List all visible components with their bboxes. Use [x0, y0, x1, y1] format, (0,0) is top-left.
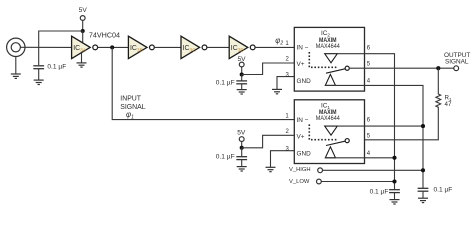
op-amp U-IC2 analog switch MAX4644 box	[294, 27, 364, 91]
capacitor 0.1uF (V_HIGH)	[418, 188, 429, 191]
svg-text:0.1 µF: 0.1 µF	[370, 189, 389, 196]
wire IC3A out to IC3B	[98, 46, 129, 48]
IC2 internal: NO buffer triangle (down)	[325, 54, 338, 63]
IC1 internal: NC buffer triangle (up)	[325, 147, 335, 158]
svg-text:IN −: IN −	[297, 117, 309, 124]
wire IC3D out to IC2 pin1 / node phi2	[255, 46, 294, 48]
svg-text:0.1 µF: 0.1 µF	[216, 79, 235, 86]
wire J1 to ground	[15, 57, 17, 74]
terminal OUTPUT SIGNAL	[454, 66, 459, 71]
svg-text:0.1 µF: 0.1 µF	[216, 153, 235, 160]
wire IC3C out to IC3D	[207, 46, 229, 48]
wire 5V terminal down to node	[82, 20, 84, 31]
svg-text:1: 1	[285, 113, 289, 119]
svg-text:0.1 µF: 0.1 µF	[434, 186, 453, 193]
ground (IC1 GND pin)	[266, 167, 276, 171]
svg-text:GND: GND	[297, 78, 312, 85]
node IC1 pin4 / V_LOW rail	[392, 156, 396, 160]
svg-text:1: 1	[285, 41, 289, 47]
node output	[436, 66, 440, 70]
ground (left bypass cap)	[34, 80, 44, 84]
IC1 internal: dashed control line	[309, 124, 337, 139]
inverter IC3D	[229, 36, 255, 58]
inverter IC3C	[181, 36, 207, 58]
node phi1 (input signal tap)	[110, 45, 114, 49]
wire IC3B out to IC3C	[154, 46, 181, 48]
wire V_HIGH to rail	[323, 169, 424, 171]
ground (IC3A)	[77, 63, 87, 67]
connector J1 input jack	[7, 38, 25, 56]
inverter IC3A	[72, 36, 98, 58]
svg-text:SIGNAL: SIGNAL	[445, 58, 469, 65]
wire IC2 pin5 to output node	[349, 67, 454, 69]
svg-text:GND: GND	[297, 151, 312, 158]
svg-text:3: 3	[286, 146, 290, 152]
svg-text:IN −: IN −	[297, 45, 309, 52]
resistor R1	[365, 68, 441, 140]
wire 5V to node (IC2 V+)	[241, 67, 243, 75]
wire IC2 pin4 to V_HIGH rail	[365, 85, 424, 188]
ground (IC1 bypass cap)	[237, 167, 247, 171]
wire node to IC2 pin2	[242, 63, 295, 75]
wire IC1 pin4 to V_LOW rail	[365, 157, 395, 159]
svg-text:47: 47	[445, 101, 452, 108]
node IC2 V+ junction	[240, 72, 244, 76]
svg-text:φ2: φ2	[275, 36, 283, 46]
ground (below J1)	[11, 74, 21, 78]
IC1 internal: common pole circle	[345, 139, 349, 143]
svg-text:INPUT: INPUT	[120, 95, 141, 102]
IC2 internal: NC buffer triangle (up)	[325, 74, 335, 85]
wire node to IC1 pin2	[242, 135, 295, 148]
svg-text:2: 2	[286, 57, 290, 63]
IC1 internal: NO buffer triangle (down)	[325, 126, 338, 135]
svg-text:0.1 µF: 0.1 µF	[47, 64, 66, 71]
wire node phi1 down and right to IC1 pin1	[112, 47, 294, 119]
svg-text:74VHC04: 74VHC04	[89, 31, 120, 40]
node 5V rail junction	[81, 29, 85, 33]
svg-text:5: 5	[367, 61, 371, 67]
svg-text:MAX4644: MAX4644	[316, 115, 340, 122]
IC2 internal: pin4 lead	[325, 84, 364, 86]
svg-text:3: 3	[286, 72, 290, 78]
svg-text:6: 6	[367, 118, 371, 124]
ground (IC2 GND pin)	[272, 89, 282, 93]
svg-text:MAX4644: MAX4644	[316, 43, 340, 50]
inverter IC3B	[128, 36, 154, 58]
IC2 internal: dashed control line	[309, 52, 337, 67]
wire J1 to IC3A input	[21, 46, 72, 48]
wire IC1 pin6 to V_HIGH rail	[365, 125, 424, 127]
wire IC1 pin3 to ground	[271, 151, 295, 167]
IC2 internal: common pole circle	[345, 66, 349, 70]
svg-text:5V: 5V	[79, 7, 88, 14]
svg-text:V_LOW: V_LOW	[289, 179, 310, 185]
capacitor 0.1uF (IC2 bypass)	[241, 75, 243, 81]
IC1 internal: pin4 lead	[325, 157, 364, 159]
ground (V_LOW cap)	[390, 200, 400, 204]
node IC1 pin6 / V_HIGH rail	[421, 124, 425, 128]
wire IC2 pin3 to ground	[277, 77, 294, 90]
svg-text:4: 4	[367, 78, 371, 84]
wire 5V to node (IC1 V+)	[241, 142, 243, 148]
IC2 internal: pin6 lead	[337, 53, 364, 55]
svg-text:φ1: φ1	[126, 110, 134, 120]
svg-text:4: 4	[367, 151, 371, 157]
svg-text:V_HIGH: V_HIGH	[289, 167, 311, 173]
svg-text:V+: V+	[297, 133, 305, 140]
node V_LOW rail	[392, 179, 396, 183]
svg-text:6: 6	[367, 45, 371, 51]
node V_HIGH rail	[421, 168, 425, 172]
ground (V_HIGH cap)	[418, 198, 428, 202]
IC1 internal: pin6 lead	[337, 125, 364, 127]
wire IC2 pin6 to V_LOW rail	[365, 54, 395, 190]
ground (IC2 bypass cap)	[237, 90, 247, 94]
wire IC3A ground stub	[81, 53, 83, 63]
svg-text:V+: V+	[297, 61, 305, 68]
IC2 internal: switch lever	[326, 69, 345, 73]
IC1 internal: switch lever	[326, 141, 345, 145]
op-amp U-IC1 analog switch MAX4644 box	[294, 100, 364, 164]
svg-text:SIGNAL: SIGNAL	[120, 104, 145, 111]
wire V_LOW to rail	[321, 181, 394, 183]
svg-text:5V: 5V	[237, 130, 246, 137]
svg-text:5: 5	[367, 134, 371, 140]
wire 5V node to IC3A power pin	[82, 31, 84, 43]
svg-text:2: 2	[286, 129, 290, 135]
capacitor 0.1uF (IC1 bypass)	[241, 148, 243, 157]
wire 5V node to bypass cap	[39, 31, 83, 65]
node IC1 V+ junction	[240, 146, 244, 150]
capacitor 0.1uF (V_LOW)	[389, 190, 400, 193]
capacitor 0.1uF (left bypass)	[33, 66, 44, 69]
